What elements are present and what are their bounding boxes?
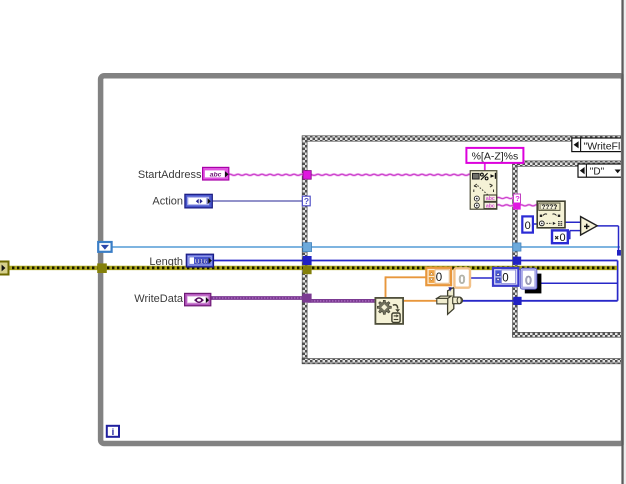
svg-text:WriteData: WriteData	[134, 293, 184, 305]
wire WriteData purple	[210, 298, 376, 301]
wire navy x0 to add	[568, 231, 582, 240]
case structure outer: left border	[302, 136, 307, 364]
case selector label "D"	[578, 164, 624, 178]
scan from string node U2	[537, 201, 565, 228]
svg-text:????: ????	[541, 204, 557, 211]
wire navy vertical right side	[617, 261, 619, 301]
svg-text:U16: U16	[195, 258, 208, 265]
wire pink from regex label down to match node	[484, 163, 486, 172]
wire navy y283 from faded blue	[538, 282, 618, 284]
add function triangle	[581, 217, 598, 235]
case structure inner: bottom border	[513, 332, 624, 337]
tunnel olive on loop border	[97, 263, 107, 273]
case selector terminal outer [?]	[302, 196, 310, 206]
tunnel magenta on outer border	[303, 171, 311, 180]
svg-text:abc: abc	[210, 171, 222, 178]
wire navy scan out to add	[565, 221, 582, 223]
numeric constant 0 (blue)	[522, 216, 533, 232]
wire orange gear to funnel	[403, 300, 438, 302]
window pane right edge	[621, 0, 623, 484]
string constant %[A-Z]%s	[466, 148, 523, 163]
svg-text:abc: abc	[486, 196, 495, 202]
control terminal StartAddress (string)	[203, 167, 229, 180]
case structure inner: left border	[513, 161, 518, 337]
wire navy funnel output	[462, 300, 618, 302]
numeric constant 0 faded orange	[454, 268, 470, 287]
svg-text:0: 0	[525, 275, 531, 287]
svg-text:0: 0	[525, 220, 531, 232]
svg-text:i: i	[112, 427, 115, 438]
while loop border	[101, 76, 624, 444]
wire Length navy horizontal	[212, 260, 618, 262]
numeric constant 0 faded blue with shadow	[520, 268, 541, 293]
match pattern node U1	[470, 171, 497, 210]
case structure inner: top border	[513, 161, 624, 166]
tunnel purple on outer border	[302, 294, 311, 303]
svg-text:"D": "D"	[590, 167, 605, 178]
wire Action (thin blue)	[211, 200, 303, 202]
svg-text:"WriteFl: "WriteFl	[584, 140, 621, 152]
wire pink match outputs to inner tunnels	[497, 197, 515, 205]
svg-text:0: 0	[459, 275, 465, 287]
wire navy 0 to scan node	[533, 223, 539, 225]
inner case selector terminal [?] pink	[514, 194, 521, 203]
left edge error terminal	[0, 262, 9, 275]
control terminal Action (enum)	[185, 194, 212, 208]
wire light blue shift register	[110, 246, 620, 248]
numeric control 0 blue	[493, 268, 518, 286]
wire orange elbow to numeric control	[386, 276, 428, 298]
multiply x0 node	[552, 230, 568, 244]
case structure outer: top border	[302, 136, 623, 141]
svg-text:0: 0	[502, 272, 508, 284]
iteration terminal i	[107, 426, 119, 438]
tunnel sky on inner border	[513, 243, 521, 251]
svg-text:%[A-Z]%s: %[A-Z]%s	[472, 151, 519, 163]
wire pink tunnel to scan node	[519, 205, 538, 206]
svg-text:StartAddress: StartAddress	[138, 169, 202, 181]
svg-text:0: 0	[436, 272, 442, 284]
tunnel navy hidden right	[617, 250, 622, 256]
gear subVI node	[375, 298, 403, 324]
tunnel sky on outer border	[303, 243, 312, 252]
svg-text:0: 0	[560, 232, 566, 244]
type cast funnel	[437, 287, 463, 314]
case selector label "WriteFl	[572, 138, 626, 152]
control terminal WriteData	[185, 293, 211, 305]
svg-text:Action: Action	[152, 196, 183, 208]
control terminal Length (U16)	[186, 254, 213, 267]
numeric control 0 orange	[426, 268, 451, 285]
tunnel olive on outer border	[303, 265, 312, 274]
tunnel navy on outer border	[303, 256, 312, 265]
wire navy add output down right	[597, 226, 623, 253]
svg-text:?: ?	[515, 194, 520, 203]
wire navy faded-orange to blue control	[470, 277, 494, 279]
wire pink StartAddress horizontal	[228, 174, 471, 175]
svg-text:?: ?	[304, 196, 309, 206]
tunnel navy on inner border (funnel wire)	[513, 297, 521, 305]
tunnel magenta on inner border	[513, 203, 521, 210]
svg-text:abc: abc	[486, 203, 495, 209]
wire error cluster dotted olive	[7, 266, 617, 270]
tunnel navy on inner border (length wire)	[513, 257, 521, 265]
case structure outer: bottom border	[302, 359, 623, 364]
shift register left	[98, 242, 111, 252]
